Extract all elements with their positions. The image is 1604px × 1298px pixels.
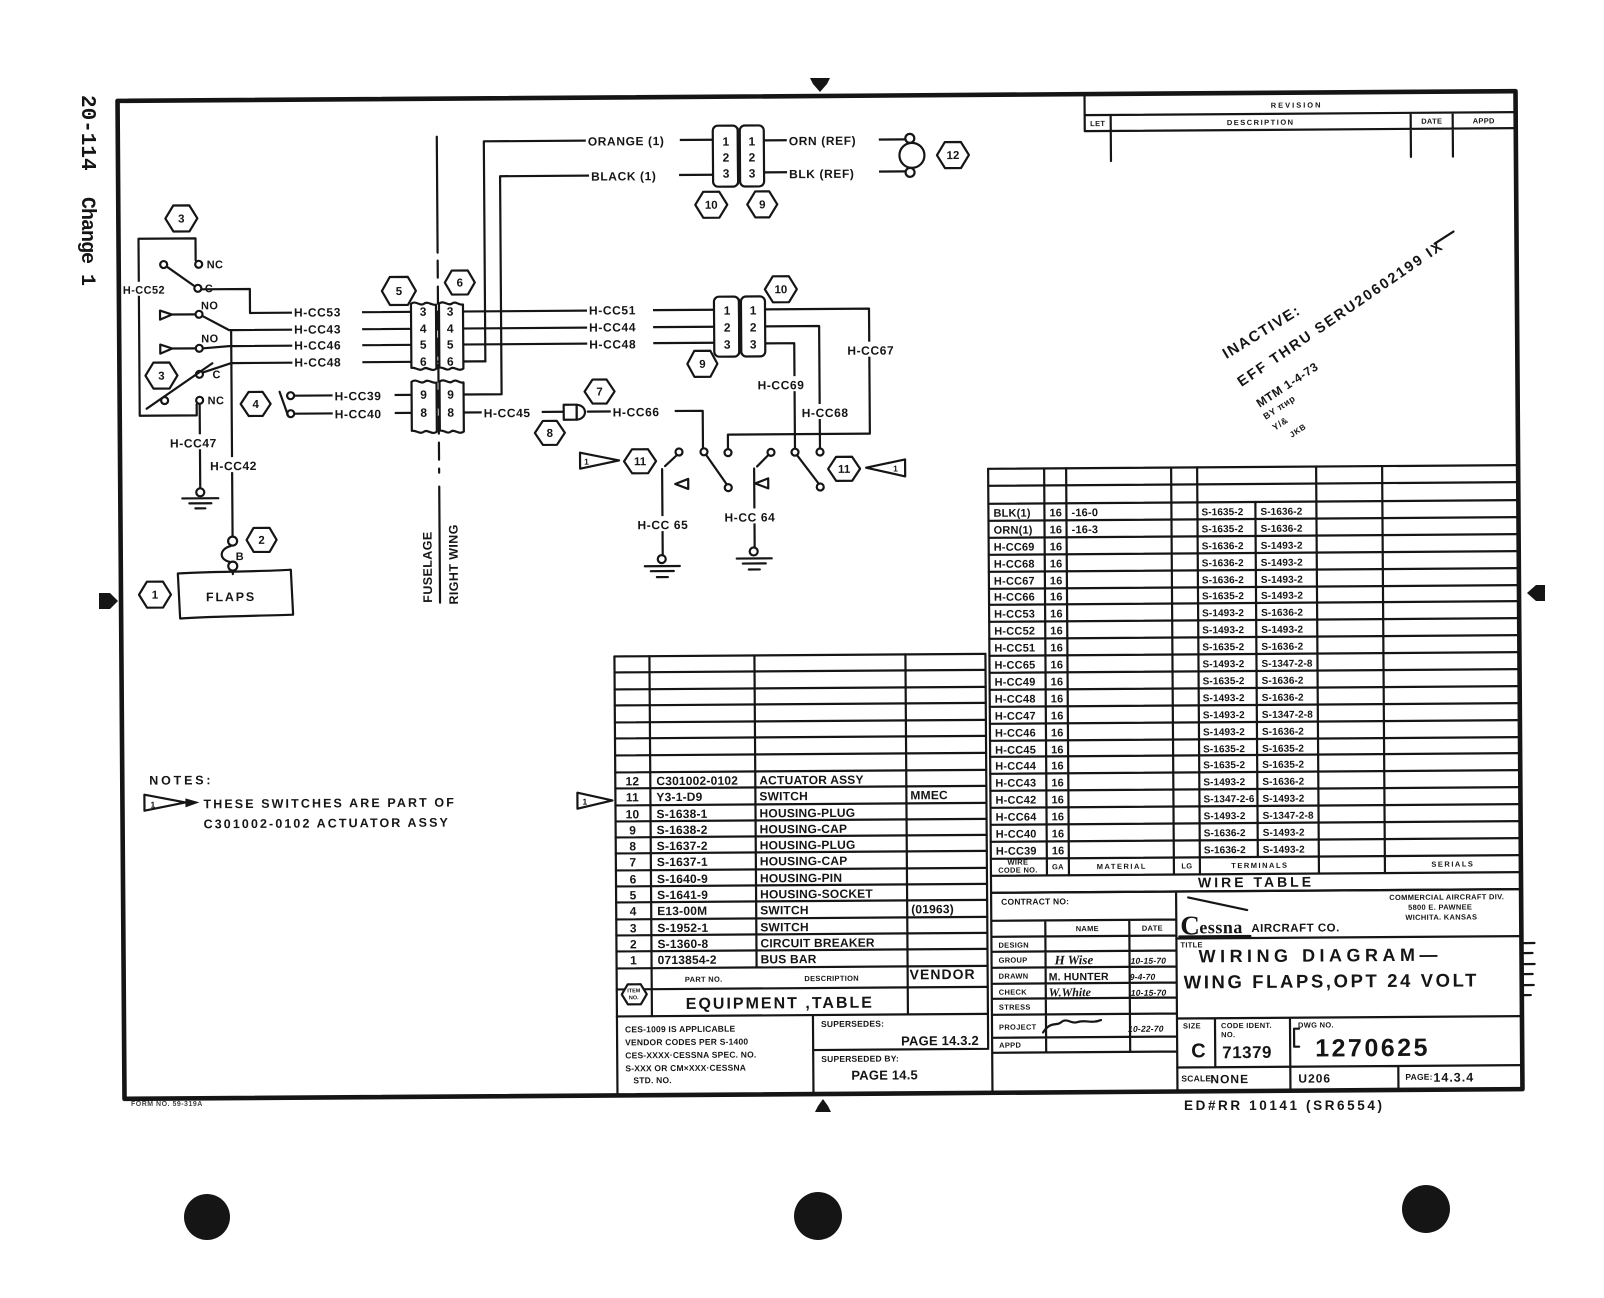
wire row3 H-CC53 / H-CC51: [201, 286, 714, 314]
FLAPS box (item 1, bus bar): [178, 570, 293, 619]
svg-text:S-1635-2: S-1635-2: [1202, 642, 1244, 653]
svg-text:S-1493-2: S-1493-2: [1203, 777, 1245, 788]
wire label ORANGE (1): [586, 131, 680, 149]
svg-text:H-CC39: H-CC39: [996, 845, 1037, 857]
svg-text:LG: LG: [1181, 861, 1192, 870]
svg-text:8: 8: [547, 428, 554, 440]
svg-text:HOUSING-SOCKET: HOUSING-SOCKET: [760, 887, 873, 902]
svg-text:10-22-70: 10-22-70: [1128, 1024, 1164, 1034]
svg-text:16: 16: [1051, 744, 1064, 756]
svg-text:14.3.4: 14.3.4: [1433, 1070, 1474, 1084]
svg-text:H-CC47: H-CC47: [170, 436, 217, 450]
svg-text:S-1636-2: S-1636-2: [1204, 845, 1246, 856]
svg-text:S-1637-2: S-1637-2: [657, 839, 708, 853]
svg-text:16: 16: [1050, 625, 1063, 637]
svg-text:GA: GA: [1052, 862, 1064, 871]
svg-text:S-1636-2: S-1636-2: [1262, 676, 1304, 687]
svg-text:16: 16: [1051, 777, 1064, 789]
wire label H-CC39: [333, 387, 395, 403]
svg-text:5: 5: [420, 338, 427, 352]
svg-text:S-1347-2-8: S-1347-2-8: [1263, 811, 1314, 822]
svg-text:ORN (REF): ORN (REF): [789, 134, 857, 148]
svg-text:H-CC51: H-CC51: [994, 642, 1035, 654]
svg-text:Change 1: Change 1: [75, 197, 98, 286]
wire label BLACK (1): [589, 166, 679, 184]
motor M1 (actuator assy, item 12): [899, 134, 924, 177]
wire ORANGE(1) / ORN(REF) net: [462, 138, 907, 361]
svg-text:H-CC42: H-CC42: [995, 794, 1036, 806]
svg-text:16: 16: [1052, 828, 1065, 840]
svg-text:S-1635-2: S-1635-2: [1202, 524, 1244, 535]
svg-text:S-XXX OR CM×XXX·CESSNA: S-XXX OR CM×XXX·CESSNA: [625, 1063, 746, 1074]
svg-text:CODE IDENT.: CODE IDENT.: [1221, 1021, 1272, 1030]
circuit breaker CB1 (item 2): [222, 537, 245, 575]
wire label H-CC53: [292, 303, 362, 319]
svg-text:SERIALS: SERIALS: [1431, 859, 1474, 868]
svg-text:2: 2: [258, 535, 264, 547]
wire label H-CC65: [635, 516, 697, 532]
svg-text:S-1637-1: S-1637-1: [657, 855, 708, 869]
svg-text:2: 2: [723, 151, 730, 165]
svg-text:H-CC52: H-CC52: [123, 285, 165, 297]
svg-text:H-CC68: H-CC68: [802, 406, 849, 420]
svg-text:S-1635-2: S-1635-2: [1262, 760, 1304, 771]
svg-text:S-1493-2: S-1493-2: [1202, 625, 1244, 636]
svg-text:H Wise: H Wise: [1054, 952, 1094, 967]
svg-text:APPD: APPD: [1473, 116, 1495, 125]
svg-text:M. HUNTER: M. HUNTER: [1049, 971, 1109, 983]
svg-text:CES-1009 IS APPLICABLE: CES-1009 IS APPLICABLE: [625, 1024, 736, 1035]
svg-text:S-1638-2: S-1638-2: [657, 823, 708, 837]
svg-text:S-1493-2: S-1493-2: [1261, 558, 1303, 569]
hex callout 9 (top): [747, 191, 777, 217]
svg-text:9-4-70: 9-4-70: [1130, 972, 1156, 982]
svg-text:1: 1: [722, 135, 729, 149]
svg-text:7: 7: [629, 855, 636, 869]
svg-text:C: C: [205, 283, 213, 295]
svg-text:2: 2: [724, 321, 731, 335]
wire label H-CC40: [333, 405, 395, 421]
svg-text:REVISION: REVISION: [1271, 100, 1323, 109]
connector P10/P9 top (actuator leads): [713, 125, 764, 186]
svg-text:S-1493-2: S-1493-2: [1263, 845, 1305, 856]
svg-text:PROJECT: PROJECT: [999, 1022, 1037, 1031]
registration arrow bottom: [815, 1099, 831, 1112]
contract / signature block: [998, 896, 1167, 1050]
svg-text:12: 12: [625, 774, 639, 788]
hex callout 5: [382, 277, 416, 305]
wire label H-CC48 (left): [292, 353, 362, 369]
wire H-CC64 to ground: [754, 454, 770, 547]
wire label H-CC44: [587, 318, 653, 334]
svg-text:C: C: [212, 369, 220, 381]
svg-text:BLK (REF): BLK (REF): [789, 167, 854, 181]
svg-text:ED#RR 10141 (SR6554): ED#RR 10141 (SR6554): [1184, 1098, 1385, 1113]
svg-text:1: 1: [584, 457, 589, 467]
svg-text:ITEM: ITEM: [627, 988, 641, 994]
svg-text:16: 16: [1050, 642, 1063, 654]
hex callout 10 (mid): [765, 276, 797, 302]
svg-text:H-CC 64: H-CC 64: [724, 510, 775, 524]
svg-text:H-CC43: H-CC43: [294, 322, 341, 336]
svg-text:20-114: 20-114: [75, 95, 98, 171]
svg-text:S-1636-2: S-1636-2: [1204, 828, 1246, 839]
svg-text:HOUSING-PIN: HOUSING-PIN: [760, 871, 842, 886]
svg-text:7: 7: [596, 387, 602, 399]
wire H-CC45 / H-CC66: [464, 411, 703, 450]
svg-text:9: 9: [629, 823, 636, 837]
svg-text:S-1635-2: S-1635-2: [1203, 760, 1245, 771]
svg-text:16: 16: [1050, 591, 1063, 603]
svg-text:H-CC40: H-CC40: [335, 407, 382, 421]
svg-text:1: 1: [152, 590, 159, 602]
svg-text:FORM NO. 59-319A: FORM NO. 59-319A: [131, 1101, 203, 1108]
switch S1 NO contact (row4): [160, 300, 218, 319]
svg-text:1: 1: [582, 797, 587, 807]
binder hole middle: [794, 1192, 842, 1240]
svg-text:W.White: W.White: [1049, 985, 1092, 999]
svg-text:12: 12: [946, 150, 959, 162]
svg-text:5: 5: [630, 888, 637, 902]
hex callout 3 (upper switch): [165, 205, 197, 231]
fuselage / right wing divider (dashed): [418, 137, 461, 605]
svg-text:HOUSING-PLUG: HOUSING-PLUG: [760, 838, 856, 853]
wire label H-CC52: [122, 282, 168, 297]
svg-text:10-15-70: 10-15-70: [1131, 988, 1167, 998]
registration arrow right: [1527, 585, 1545, 601]
wire H-CC42 to breaker: [231, 330, 232, 536]
hex callout 1 (FLAPS): [139, 582, 171, 608]
svg-text:PAGE 14.3.2: PAGE 14.3.2: [901, 1033, 979, 1049]
svg-text:2: 2: [630, 937, 637, 951]
wire table rows: [993, 506, 1314, 858]
svg-text:VENDOR CODES PER S-1400: VENDOR CODES PER S-1400: [625, 1037, 748, 1048]
svg-text:-16-3: -16-3: [1072, 524, 1099, 536]
svg-text:S-1493-2: S-1493-2: [1261, 575, 1303, 586]
svg-text:16: 16: [1051, 693, 1064, 705]
equipment table header: [622, 966, 976, 1013]
svg-text:16: 16: [1051, 710, 1064, 722]
svg-text:16: 16: [1052, 845, 1065, 857]
wire label H-CC46: [292, 336, 362, 352]
ground G1 (H-CC47): [182, 488, 218, 508]
svg-text:H-CC52: H-CC52: [994, 625, 1035, 637]
supersedes / vendor-code notes: [617, 1014, 989, 1095]
splice SP1 (items 7/8): [564, 405, 585, 420]
svg-text:S-1636-2: S-1636-2: [1202, 541, 1244, 552]
svg-text:3: 3: [723, 167, 730, 181]
svg-text:16: 16: [1050, 524, 1063, 536]
svg-text:S-1636-2: S-1636-2: [1261, 608, 1303, 619]
svg-text:10: 10: [705, 200, 718, 212]
svg-text:1: 1: [750, 303, 757, 317]
svg-text:ORN(1): ORN(1): [994, 525, 1033, 537]
svg-text:H-CC69: H-CC69: [994, 542, 1035, 554]
revision table: [1085, 91, 1516, 161]
svg-text:PAGE 14.5: PAGE 14.5: [851, 1067, 918, 1082]
svg-text:S-1347-2-6: S-1347-2-6: [1203, 794, 1254, 805]
svg-text:DESCRIPTION: DESCRIPTION: [1227, 118, 1295, 127]
note flag at equipment table row 11: [577, 792, 612, 808]
svg-text:NO: NO: [201, 333, 218, 345]
svg-text:NO.: NO.: [629, 995, 639, 1001]
INACTIVE handwriting: [1219, 232, 1455, 440]
wire H-CC68: [765, 326, 820, 448]
switch S2 (item 3 lower) NO contact (row5): [160, 333, 218, 353]
svg-text:NAME: NAME: [1076, 924, 1099, 933]
svg-text:H-CC51: H-CC51: [589, 303, 636, 317]
svg-text:SWITCH: SWITCH: [760, 920, 809, 934]
wire rail to limit switches: [728, 434, 870, 449]
svg-text:H-CC39: H-CC39: [335, 389, 382, 403]
svg-text:PAGE:: PAGE:: [1405, 1072, 1432, 1082]
switch S1 (flap selector, item 3) frame: [138, 238, 196, 415]
svg-text:S-1636-2: S-1636-2: [1262, 777, 1304, 788]
wire label H-CC67: [845, 341, 907, 357]
page number 20-114 (rotated margin text): [75, 95, 98, 171]
switch S3 (item 4): [280, 392, 295, 418]
svg-text:H-CC53: H-CC53: [994, 608, 1035, 620]
hex callout 9 (mid): [687, 351, 717, 377]
torn-edge ticks right of title box: [1521, 943, 1534, 995]
size / code ident / dwg no: [1183, 1020, 1430, 1064]
svg-text:4: 4: [630, 904, 637, 918]
registration arrow top: [810, 78, 830, 92]
svg-text:SIZE: SIZE: [1183, 1021, 1201, 1030]
wire H-CC67: [765, 309, 870, 434]
svg-text:H-CC64: H-CC64: [996, 811, 1038, 823]
switch S1 upper NC/C contacts: [160, 259, 223, 295]
svg-text:S-1636-2: S-1636-2: [1202, 575, 1244, 586]
svg-text:3: 3: [724, 338, 731, 352]
svg-text:S-1636-2: S-1636-2: [1262, 693, 1304, 704]
svg-text:8: 8: [420, 406, 427, 420]
wire label H-CC51: [587, 301, 653, 317]
hex callout 7: [584, 379, 614, 403]
svg-text:10: 10: [626, 807, 640, 821]
svg-text:H-CC67: H-CC67: [847, 343, 894, 357]
equipment table: [614, 654, 988, 1017]
limit switch LS1 (item 11 left): [675, 448, 688, 489]
svg-text:FUSELAGE: FUSELAGE: [421, 531, 435, 602]
svg-text:MATERIAL: MATERIAL: [1097, 862, 1147, 871]
wire row6 H-CC48: [203, 361, 485, 372]
switch S2 C/NC contacts: [146, 363, 224, 409]
svg-text:SUPERSEDED BY:: SUPERSEDED BY:: [821, 1053, 899, 1064]
svg-text:CIRCUIT BREAKER: CIRCUIT BREAKER: [760, 936, 875, 951]
svg-text:S-1493-2: S-1493-2: [1204, 811, 1246, 822]
svg-text:S-1638-1: S-1638-1: [656, 807, 707, 821]
svg-text:HOUSING-CAP: HOUSING-CAP: [760, 854, 848, 869]
svg-text:NONE: NONE: [1210, 1072, 1249, 1086]
hex callout 12 (actuator): [937, 142, 969, 168]
svg-text:TERMINALS: TERMINALS: [1231, 861, 1288, 870]
svg-text:2: 2: [750, 320, 757, 334]
svg-text:H-CC44: H-CC44: [589, 320, 636, 334]
notes block: [144, 772, 456, 832]
wire row4 H-CC43 / H-CC44: [203, 313, 714, 331]
svg-text:SWITCH: SWITCH: [760, 903, 809, 917]
svg-text:5: 5: [396, 286, 403, 298]
svg-text:1: 1: [150, 800, 155, 810]
wire label H-CC43: [292, 320, 362, 336]
Change 1 (rotated margin text): [75, 197, 98, 286]
svg-text:C301002-0102: C301002-0102: [656, 774, 738, 789]
svg-text:H-CC69: H-CC69: [757, 378, 804, 392]
svg-text:(01963): (01963): [911, 902, 954, 916]
svg-text:5: 5: [447, 338, 454, 352]
hex callout 11 (left): [624, 449, 656, 473]
svg-text:SCALE:: SCALE:: [1181, 1073, 1214, 1083]
svg-text:essna: essna: [1199, 917, 1243, 937]
connector P10/P9 mid (wing leads): [714, 296, 765, 356]
svg-text:THESE SWITCHES ARE PART OF: THESE SWITCHES ARE PART OF: [203, 796, 456, 812]
svg-text:0713854-2: 0713854-2: [657, 953, 716, 967]
svg-text:9: 9: [447, 388, 454, 402]
svg-text:H-CC46: H-CC46: [294, 338, 341, 352]
hex callout 2 (breaker): [247, 528, 277, 552]
svg-text:H-CC45: H-CC45: [995, 744, 1036, 756]
svg-text:WIRE TABLE: WIRE TABLE: [1198, 874, 1314, 891]
svg-text:CONTRACT NO:: CONTRACT NO:: [1001, 896, 1069, 906]
svg-text:3: 3: [158, 371, 164, 383]
svg-text:DATE: DATE: [1142, 924, 1163, 933]
svg-text:H-CC48: H-CC48: [589, 337, 636, 351]
svg-text:RIGHT WING: RIGHT WING: [446, 524, 461, 604]
svg-text:S-1493-2: S-1493-2: [1202, 659, 1244, 670]
svg-text:3: 3: [178, 213, 184, 225]
svg-text:S-1636-2: S-1636-2: [1262, 727, 1304, 738]
svg-text:1: 1: [724, 304, 731, 318]
svg-text:16: 16: [1051, 794, 1064, 806]
svg-text:E13-00M: E13-00M: [657, 904, 707, 918]
form number: [131, 1101, 203, 1108]
svg-text:FLAPS: FLAPS: [206, 590, 256, 604]
wire label BLK (REF): [787, 164, 879, 182]
svg-text:9: 9: [699, 359, 705, 371]
svg-text:U206: U206: [1298, 1071, 1331, 1085]
wire label H-CC47: [168, 434, 222, 450]
svg-text:SUPERSEDES:: SUPERSEDES:: [821, 1019, 884, 1029]
svg-text:9: 9: [759, 199, 765, 211]
svg-text:BLACK (1): BLACK (1): [591, 169, 657, 183]
svg-text:DATE: DATE: [1421, 117, 1442, 126]
svg-text:H-CC66: H-CC66: [613, 405, 660, 419]
svg-text:DWG NO.: DWG NO.: [1298, 1020, 1334, 1029]
svg-text:COMMERCIAL AIRCRAFT DIV.: COMMERCIAL AIRCRAFT DIV.: [1389, 892, 1504, 902]
svg-text:B: B: [236, 551, 244, 563]
svg-text:4: 4: [420, 322, 427, 336]
svg-text:H-CC67: H-CC67: [994, 575, 1035, 587]
wire label H-CC42: [208, 457, 268, 473]
svg-text:S-1493-2: S-1493-2: [1261, 591, 1303, 602]
wire label H-CC48 (mid): [587, 335, 653, 351]
connector P5/P6 lower (pins 9/8): [411, 380, 463, 433]
equipment table rows: [625, 772, 954, 967]
svg-text:S-1360-8: S-1360-8: [657, 937, 708, 951]
svg-text:WIRING DIAGRAM—: WIRING DIAGRAM—: [1198, 945, 1442, 967]
svg-text:AIRCRAFT CO.: AIRCRAFT CO.: [1251, 922, 1340, 935]
svg-text:S-1641-9: S-1641-9: [657, 888, 708, 902]
svg-text:6: 6: [420, 355, 427, 369]
svg-text:16: 16: [1050, 575, 1063, 587]
svg-text:CHECK: CHECK: [999, 988, 1028, 997]
svg-text:H-CC47: H-CC47: [995, 710, 1036, 722]
ground G3 (H-CC64): [737, 547, 772, 569]
svg-text:H-CC65: H-CC65: [994, 659, 1035, 671]
hex callout 11 (right): [828, 457, 860, 481]
svg-text:11: 11: [634, 456, 647, 468]
svg-text:S-1636-2: S-1636-2: [1261, 524, 1303, 535]
svg-text:S-1635-2: S-1635-2: [1203, 676, 1245, 687]
svg-text:H-CC49: H-CC49: [995, 676, 1036, 688]
svg-text:S-1636-2: S-1636-2: [1261, 642, 1303, 653]
svg-text:-16-0: -16-0: [1071, 507, 1098, 519]
wire table: [988, 465, 1521, 893]
svg-text:S-1636-2: S-1636-2: [1260, 507, 1302, 518]
svg-text:SWITCH: SWITCH: [759, 789, 808, 803]
wire label H-CC66: [611, 403, 675, 419]
wire label ORN (REF): [787, 131, 879, 149]
svg-text:6: 6: [457, 277, 463, 289]
svg-text:C301002-0102 ACTUATOR ASSY: C301002-0102 ACTUATOR ASSY: [204, 816, 450, 832]
svg-text:S-1635-2: S-1635-2: [1201, 507, 1243, 518]
svg-text:3: 3: [749, 166, 756, 180]
svg-text:H-CC68: H-CC68: [994, 559, 1035, 571]
wire label H-CC69: [755, 376, 817, 392]
svg-text:3: 3: [630, 921, 637, 935]
note flag 1 (right limit switch): [866, 459, 905, 476]
svg-text:S-1493-2: S-1493-2: [1261, 625, 1303, 636]
svg-text:DRAWN: DRAWN: [999, 972, 1029, 981]
hex callout 6: [445, 270, 475, 294]
svg-text:DESCRIPTION: DESCRIPTION: [804, 974, 859, 983]
svg-text:STRESS: STRESS: [999, 1003, 1031, 1012]
svg-text:H-CC40: H-CC40: [996, 828, 1037, 840]
title block frame: [991, 889, 1522, 1092]
wire H-CC40: [295, 412, 412, 415]
svg-text:S-1347-2-8: S-1347-2-8: [1261, 659, 1312, 670]
binder hole right: [1402, 1185, 1450, 1233]
wire H-CC47 to ground: [199, 404, 202, 488]
svg-text:VENDOR: VENDOR: [910, 966, 976, 982]
svg-text:S-1952-1: S-1952-1: [657, 921, 708, 935]
svg-text:3: 3: [750, 337, 757, 351]
svg-text:2: 2: [749, 150, 756, 164]
svg-text:S-1636-2: S-1636-2: [1202, 558, 1244, 569]
svg-text:1: 1: [630, 953, 637, 967]
svg-text:S-1635-2: S-1635-2: [1203, 744, 1245, 755]
hex callout 8: [535, 421, 565, 445]
svg-text:H-CC66: H-CC66: [994, 591, 1035, 603]
svg-text:C: C: [1180, 910, 1200, 940]
note flag 1 (left limit switch): [580, 452, 619, 468]
svg-text:BUS BAR: BUS BAR: [760, 952, 816, 966]
svg-text:S-1493-2: S-1493-2: [1203, 693, 1245, 704]
svg-text:S-1493-2: S-1493-2: [1202, 608, 1244, 619]
svg-text:4: 4: [447, 322, 454, 336]
svg-text:HOUSING-CAP: HOUSING-CAP: [760, 822, 848, 837]
hex callout 10 (top): [695, 192, 727, 218]
svg-text:S-1493-2: S-1493-2: [1203, 727, 1245, 738]
svg-text:PART NO.: PART NO.: [685, 975, 723, 984]
svg-text:H-CC46: H-CC46: [995, 727, 1036, 739]
wire H-CC65 to ground: [662, 455, 678, 555]
svg-text:WING FLAPS,OPT 24 VOLT: WING FLAPS,OPT 24 VOLT: [1184, 969, 1479, 992]
svg-text:8: 8: [447, 406, 454, 420]
svg-text:NC: NC: [208, 395, 225, 407]
svg-text:1270625: 1270625: [1315, 1034, 1430, 1063]
